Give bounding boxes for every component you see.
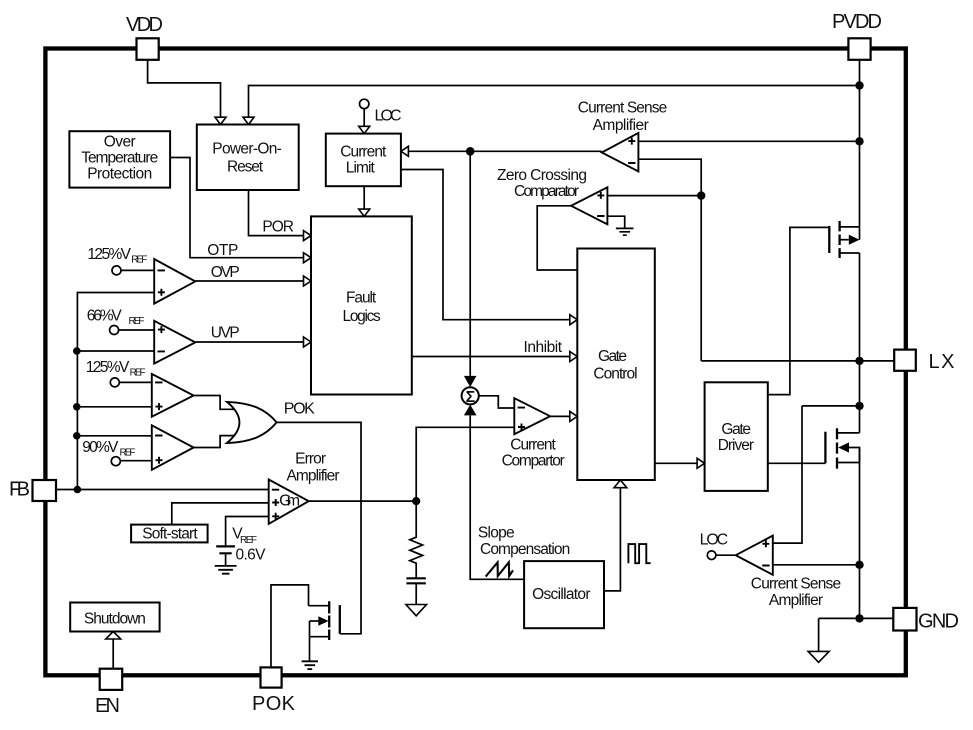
wire sense line down to LX: [700, 196, 702, 361]
svg-text:FB: FB: [9, 479, 30, 501]
svg-text:Gate: Gate: [721, 421, 751, 438]
svg-text:Slope: Slope: [478, 525, 515, 542]
pad LX: [894, 350, 916, 371]
arrow into Current Limit top: [359, 126, 370, 133]
wire current sense amp output to current limit: [408, 150, 601, 152]
svg-text:REF: REF: [131, 255, 147, 266]
wire EN to Shutdown: [112, 639, 114, 669]
wire power rail mid segment (source to LX to lower drain): [859, 253, 861, 433]
svg-text:UVP: UVP: [211, 325, 240, 342]
node dot sense line / ZCC plus: [697, 191, 705, 199]
svg-text:Current: Current: [340, 143, 387, 160]
svg-text:125%V: 125%V: [87, 246, 131, 263]
wire UVP plus input: [119, 329, 155, 331]
ground arrow (power): [808, 651, 829, 662]
transistor Q2 low-side MOSFET gate bar: [824, 432, 826, 464]
wire GND node to ground arrow: [819, 618, 860, 651]
transistor Q2 channel segments: [836, 428, 838, 468]
compensation resistor: [410, 501, 423, 578]
transistor Q2 source stub: [837, 462, 860, 464]
wire comparator3 minus input: [119, 381, 152, 383]
wire POK pad to Q3 drain: [271, 585, 309, 668]
terminal LOC bottom circle: [707, 551, 716, 560]
wire LOC to bottom CSA: [716, 554, 736, 556]
svg-text:Σ: Σ: [466, 389, 476, 406]
wire Q3 source to ground: [309, 621, 311, 661]
transistor Q1 drain stub: [840, 226, 860, 228]
transistor Q3 body stub: [310, 620, 319, 622]
svg-text:Protection: Protection: [87, 165, 152, 182]
wire error amplifier output to current comparator: [309, 427, 515, 501]
arrow into Gate Driver: [697, 458, 705, 468]
svg-text:Gm: Gm: [279, 492, 300, 509]
node dot FB/rail: [74, 486, 82, 494]
transistor Q3 body arrow: [318, 616, 328, 626]
svg-text:REF: REF: [130, 368, 146, 379]
svg-text:LX: LX: [929, 351, 955, 373]
ground arrow (compensation): [406, 605, 427, 616]
svg-text:125%V: 125%V: [86, 359, 130, 376]
op-amp OVP comparator: [154, 259, 195, 304]
svg-text:Limit: Limit: [346, 160, 376, 177]
wire PVDD branch arrow into POR: [243, 117, 254, 124]
arrow OVP into Fault Logics: [304, 276, 312, 286]
op-amp comparator 3 (125%): [152, 374, 194, 417]
svg-text:LOC: LOC: [375, 108, 402, 125]
wire power rail lower segment (body/source to GND): [859, 448, 861, 619]
svg-text:Current: Current: [510, 437, 556, 454]
wire VREF to error amplifier: [226, 517, 269, 546]
svg-text:Control: Control: [593, 366, 637, 383]
arrow up into Shutdown from EN: [106, 632, 121, 640]
wire OTP from Over Temperature Protection: [170, 158, 303, 258]
transistor Q2 drain stub: [837, 432, 860, 434]
svg-text:Current Sense: Current Sense: [578, 100, 668, 117]
transistor Q3 source stub: [310, 636, 330, 638]
summing node circle: [462, 387, 479, 404]
ground symbol (ZCC): [616, 228, 634, 235]
node dot CSA output branch: [466, 147, 475, 156]
arrow up into summing node: [464, 405, 477, 416]
wire VDD branch arrow into POR: [215, 117, 226, 124]
svg-text:POK: POK: [252, 693, 296, 715]
block Gate Driver: [705, 382, 768, 491]
node dot rail/UVP: [73, 347, 81, 355]
svg-text:OTP: OTP: [207, 242, 238, 259]
wire Current Limit output to Gate Control: [401, 170, 570, 320]
arrow current comparator into Gate Control: [570, 411, 578, 421]
wire Inhibit Fault Logics to Gate Control: [412, 356, 570, 358]
wire zero crossing comparator plus input: [607, 195, 701, 197]
wire CSA plus input to PVDD rail: [638, 140, 859, 142]
svg-text:Comparator: Comparator: [514, 183, 579, 200]
arrow into Gate Control (limit): [570, 315, 578, 325]
wire Q1 gate from gate driver: [768, 227, 830, 394]
svg-text:POR: POR: [262, 219, 294, 236]
svg-text:VDD: VDD: [126, 14, 163, 36]
node dot LX / power rail: [855, 357, 863, 365]
svg-text:Shutdown: Shutdown: [84, 611, 146, 628]
svg-text:Error: Error: [295, 450, 326, 467]
terminal circle 125%VREF (OVP): [112, 266, 121, 275]
arrow OTP into Fault Logics: [304, 253, 312, 263]
arrow into Current Limit right: [401, 146, 409, 156]
node dot GND: [855, 614, 863, 622]
svg-text:PVDD: PVDD: [832, 11, 882, 33]
transistor Q1 body stub: [840, 239, 849, 241]
svg-text:Reset: Reset: [227, 159, 264, 176]
squarewave symbol: [628, 544, 650, 563]
wire PVDD rail upper segment: [859, 60, 861, 240]
wire LX line: [701, 360, 894, 362]
arrow UVP into Fault Logics: [304, 337, 312, 347]
wire current comparator output to Gate Control: [550, 415, 570, 417]
op-amp comparator 4 (90%): [152, 425, 194, 470]
node dot rail/comparator3: [73, 403, 81, 411]
terminal circle 125%VREF (comparator 3): [110, 378, 119, 387]
terminal LOC top circle: [360, 99, 369, 108]
wire UVP minus to rail: [77, 350, 154, 352]
svg-text:Logics: Logics: [343, 308, 382, 325]
wire UVP comparator output: [195, 341, 303, 343]
node dot PVDD/top-rail junction: [855, 81, 863, 89]
transistor Q1 channel segments: [838, 221, 840, 258]
pad PVDD: [848, 38, 870, 60]
wire summing node to current comparator minus: [479, 396, 515, 408]
arrow POR into Fault Logics: [304, 231, 312, 241]
transistor Q3 drain stub: [309, 605, 330, 607]
svg-text:Gate: Gate: [598, 348, 627, 365]
op-amp error amplifier Gm: [269, 480, 309, 524]
block Shutdown: [70, 603, 159, 632]
svg-text:Inhibit: Inhibit: [524, 339, 563, 356]
wire bottom CSA plus input: [773, 406, 802, 543]
svg-text:Amplifier: Amplifier: [287, 468, 340, 485]
svg-text:Zero Crossing: Zero Crossing: [497, 167, 587, 184]
wire CSA minus input to LX sense line: [638, 159, 701, 195]
wire soft-start to error amplifier: [172, 503, 269, 525]
node dot power rail / Q2 drain: [855, 402, 863, 410]
svg-text:OVP: OVP: [211, 264, 240, 281]
svg-text:EN: EN: [95, 695, 120, 717]
op-amp current comparator (PWM): [514, 398, 550, 434]
pad FB: [33, 480, 57, 501]
transistor Q3 POK open-drain MOSFET gate bar: [339, 605, 341, 634]
svg-text:Amplifier: Amplifier: [769, 592, 823, 609]
wire battery to ground: [225, 553, 227, 565]
wire Q2 gate from gate driver: [768, 462, 826, 464]
chip boundary frame: [45, 49, 905, 676]
transistor Q2 body arrow: [838, 442, 849, 452]
wire lower drain jog to sense line: [802, 405, 860, 407]
svg-text:GND: GND: [918, 611, 959, 633]
svg-text:POK: POK: [284, 401, 315, 418]
arrow into Fault Logics top: [359, 209, 370, 216]
pad EN: [100, 669, 123, 690]
svg-text:Temperature: Temperature: [81, 150, 158, 167]
wire comparator3 plus to rail: [77, 406, 151, 408]
wire bottom CSA minus input: [773, 564, 860, 566]
wire slope compensation from summing node to oscillator: [470, 415, 524, 579]
svg-text:90%V: 90%V: [82, 439, 119, 456]
svg-text:Current Sense: Current Sense: [751, 575, 841, 592]
wire LOC to Current Limit: [363, 109, 365, 127]
ground symbol (VREF): [215, 566, 237, 574]
block Oscillator: [524, 561, 604, 628]
pad VDD: [137, 38, 159, 60]
wire FB to error amplifier: [56, 489, 269, 491]
op-amp current sense amplifier (bottom): [736, 536, 773, 575]
wire OVP plus to left rail: [77, 293, 154, 490]
wire comparator4 plus input: [120, 460, 152, 462]
sawtooth symbol: [486, 562, 513, 576]
svg-text:Soft-start: Soft-start: [142, 526, 198, 543]
wire GND node to pad: [860, 617, 894, 619]
terminal circle 66%VREF (UVP): [110, 326, 119, 335]
wire CSA branch down to summing node: [469, 151, 471, 376]
node dot rail / CSA minus: [855, 561, 863, 569]
svg-text:LOC: LOC: [700, 532, 729, 549]
svg-text:Compartor: Compartor: [502, 452, 565, 469]
transistor Q1 source stub: [840, 252, 860, 254]
wire capacitor to ground arrow: [415, 583, 417, 604]
arrow down into summing node: [464, 376, 477, 387]
wire VDD stem: [148, 60, 221, 117]
svg-text:0.6V: 0.6V: [236, 547, 267, 564]
block Fault Logics: [311, 216, 412, 394]
ground symbol (POK FET): [302, 661, 318, 669]
block Current Limit: [326, 134, 401, 187]
wire OVP comparator output: [195, 280, 303, 282]
block Gate Control: [577, 249, 655, 481]
pad POK: [261, 667, 282, 687]
transistor Q1 high-side MOSFET gate bar: [828, 226, 830, 253]
svg-text:66%V: 66%V: [87, 308, 123, 325]
block Soft-start: [131, 525, 208, 543]
svg-text:Over: Over: [104, 134, 136, 151]
wire Current Limit bottom to Fault Logics: [363, 186, 365, 209]
op-amp zero crossing comparator: [571, 187, 607, 224]
svg-text:Power-On-: Power-On-: [212, 140, 281, 157]
block Power-On-Reset: [197, 125, 299, 191]
svg-text:Fault: Fault: [346, 290, 377, 307]
compensation capacitor: [406, 578, 425, 583]
svg-text:Compensation: Compensation: [480, 541, 570, 558]
block Over Temperature Protection: [69, 131, 170, 187]
node dot error amp output: [412, 497, 420, 505]
wire Gate Control output to Gate Driver: [655, 462, 697, 464]
wire comparator3 output jog into OR gate: [194, 396, 236, 410]
svg-text:Driver: Driver: [718, 437, 754, 454]
op-amp current sense amplifier (top): [602, 133, 639, 172]
wire OVP minus input: [121, 269, 154, 271]
wire POK from OR gate to open-drain FET gate: [277, 422, 361, 633]
gate OR (POK): [227, 402, 277, 443]
pad GND: [893, 608, 916, 631]
transistor Q1 body arrow: [849, 235, 860, 245]
svg-text:REF: REF: [129, 316, 145, 327]
node dot rail/comparator4: [73, 432, 81, 440]
transistor Q3 channel segments: [328, 601, 330, 640]
svg-text:REF: REF: [240, 535, 257, 546]
battery VREF plates: [216, 546, 235, 553]
op-amp UVP comparator: [154, 321, 195, 364]
wire ZCC output to Gate Control: [537, 206, 577, 270]
terminal circle 90%VREF (comparator 4): [111, 457, 120, 466]
wire ZCC minus to ground: [607, 216, 624, 227]
transistor Q2 body stub: [849, 448, 860, 463]
svg-text:Amplifier: Amplifier: [593, 117, 649, 134]
svg-text:Oscillator: Oscillator: [532, 586, 590, 603]
wire comparator4 output jog into OR gate: [194, 436, 236, 448]
node dot PVDD rail / CSA plus: [855, 137, 863, 145]
wire POR output: [249, 190, 304, 236]
arrow up into Gate Control bottom: [614, 480, 627, 488]
svg-text:REF: REF: [120, 448, 136, 459]
wire Oscillator output to Gate Control: [604, 488, 620, 591]
arrow Inhibit into Gate Control: [570, 352, 578, 362]
wire comparator4 minus to rail: [77, 435, 151, 437]
wire PVDD top rail to POR: [249, 86, 860, 118]
